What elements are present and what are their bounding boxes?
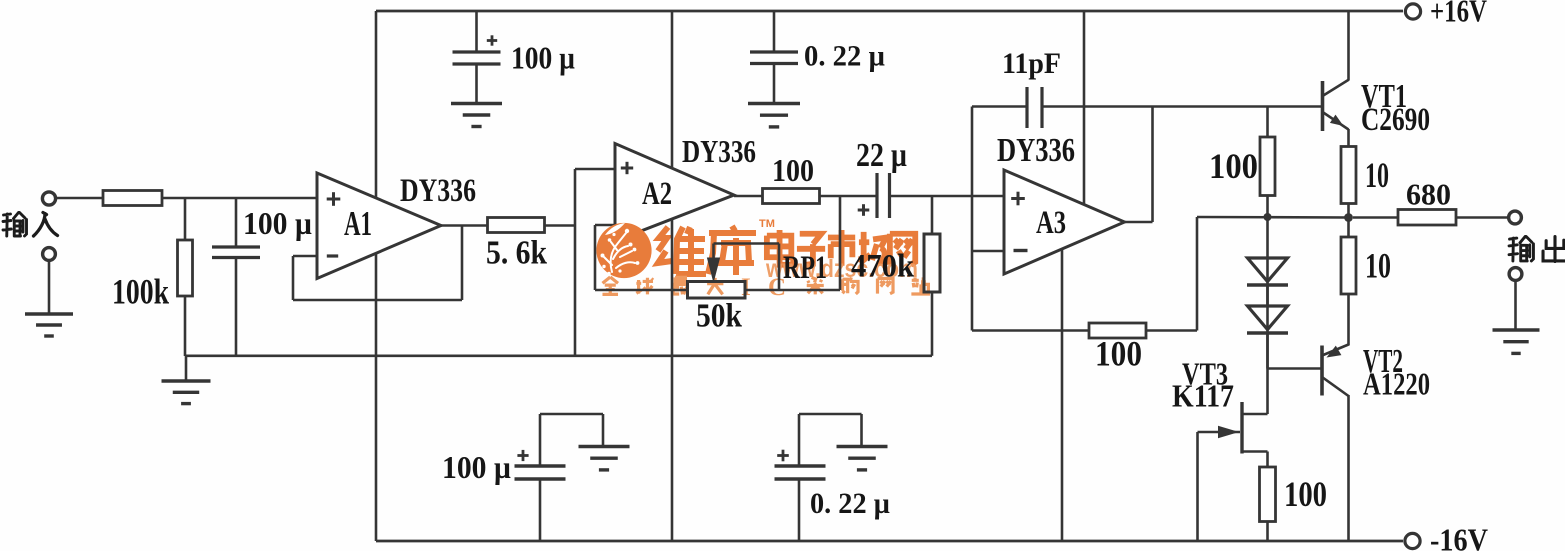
wire A1 V- supply to bottom rail	[375, 254, 378, 541]
wire C1 to ground bus	[235, 258, 238, 357]
svg-text:C2690: C2690	[1361, 102, 1430, 138]
svg-text:100k: 100k	[112, 272, 169, 312]
svg-text:A3: A3	[1036, 205, 1066, 241]
ground C4	[579, 445, 630, 448]
svg-text:100: 100	[1095, 334, 1142, 374]
wire -16V bottom supply rail	[376, 540, 1403, 543]
capacitor C5 0.22u plate1	[775, 464, 826, 467]
wire A2 feedback leg	[839, 196, 842, 290]
wire +16V top supply rail	[376, 10, 1403, 13]
capacitor C5 0.22u plate2	[775, 477, 826, 480]
watermark big characters	[658, 227, 706, 274]
wire A1 output	[441, 224, 488, 227]
wire ground bus	[186, 354, 932, 357]
VT2 emitter diagonal	[1322, 345, 1349, 356]
wire A3 output	[1125, 221, 1153, 224]
svg-text:A2: A2	[642, 176, 672, 212]
svg-text:100 µ: 100 µ	[511, 40, 575, 76]
wire A2 inv down	[594, 225, 597, 290]
op-amp A1	[317, 173, 441, 279]
svg-text:100 µ: 100 µ	[243, 205, 312, 241]
VT3 gate arrow	[1218, 426, 1239, 438]
wire node down to VT3 drain	[1266, 369, 1269, 415]
junction dot output node	[1344, 213, 1353, 222]
wire RP1 wiper link top	[714, 242, 780, 245]
wire C4 link right	[540, 413, 603, 416]
wire base line 11pF to VT1	[1042, 105, 1321, 108]
VT3 gate lead	[1198, 431, 1241, 434]
transistor VT1 base bar	[1321, 81, 1325, 131]
wire 100 to C22u	[820, 195, 878, 198]
wire 100 to bottom rail	[1266, 522, 1269, 542]
wire 10 lower to VT2 emitter	[1347, 294, 1350, 346]
wire C3 to ground	[773, 64, 776, 104]
VT1 emitter arrow	[1330, 115, 1344, 126]
VT1 emitter diagonal	[1323, 112, 1349, 130]
wire 470k bottom leg	[931, 292, 934, 356]
ground input port	[25, 312, 73, 315]
svg-text:A1: A1	[344, 204, 372, 243]
svg-text:100: 100	[1284, 474, 1327, 514]
svg-text:5. 6k: 5. 6k	[486, 235, 547, 272]
A3 minus marker	[1014, 249, 1028, 252]
wire C5 link right	[799, 413, 862, 416]
resistor 100k input bias	[178, 240, 193, 296]
resistor 680	[1398, 210, 1456, 226]
wire VT3 drain lead	[1242, 413, 1268, 416]
wire C4 ground drop	[602, 414, 605, 447]
terminal +16V	[1405, 4, 1420, 19]
wire VT1 emitter down	[1347, 129, 1350, 147]
label input (shu-ru)	[3, 213, 27, 237]
wire VT3 source down	[1266, 452, 1269, 468]
wire VT1 collector to rail	[1347, 11, 1350, 80]
resistor 100 A3 feedback	[1089, 323, 1146, 338]
VT1 collector diagonal	[1323, 80, 1350, 97]
diode D2	[1248, 306, 1288, 330]
junction dot diode node	[1264, 213, 1272, 221]
svg-text:DY336: DY336	[682, 133, 756, 169]
op-amp A3	[1004, 170, 1125, 274]
resistor 10 upper	[1341, 147, 1356, 204]
ground signal ground	[162, 379, 211, 382]
resistor R-in series input	[103, 191, 162, 206]
label output (shu-chu)	[1509, 237, 1533, 261]
capacitor C3 0.22u plate1	[750, 50, 798, 53]
wire node to 680	[1353, 216, 1398, 219]
wire A3 inverting stub	[972, 250, 1004, 253]
svg-text:100: 100	[772, 152, 814, 188]
svg-text:10: 10	[1365, 155, 1389, 195]
wire ground stub under 100k	[185, 356, 188, 381]
capacitor C3 0.22u plate2	[750, 62, 798, 65]
capacitor C2 100u plate2	[453, 62, 501, 65]
resistor 100 bias	[1260, 137, 1275, 196]
wire node to D1 (backbone through diodes)	[1266, 217, 1269, 369]
resistor 100 A2 output	[763, 189, 820, 204]
capacitor 22u plate2	[888, 173, 891, 218]
wire A3 output riser	[1151, 107, 1154, 223]
terminal output	[1509, 211, 1522, 224]
wire input node down to C1	[235, 198, 238, 247]
wire node to VT2 base	[1268, 367, 1323, 370]
svg-text:470k: 470k	[851, 249, 915, 285]
wire C5 ground drop	[860, 414, 863, 447]
VT2 emitter arrow	[1327, 346, 1342, 358]
wire C4 up	[539, 414, 542, 466]
wire A3 V- to bottom rail	[1061, 250, 1064, 542]
wire output ground down	[1514, 281, 1517, 331]
capacitor 11pF plate2	[1040, 87, 1043, 128]
wire C4 to bottom rail	[539, 479, 542, 541]
ground C5	[837, 445, 888, 448]
wire VT2 collector to bottom rail	[1347, 395, 1350, 541]
capacitor 22u plate1	[875, 173, 878, 218]
wire A2 inverting stub	[595, 224, 615, 227]
A1 plus marker	[327, 198, 341, 201]
svg-text:100 µ: 100 µ	[442, 449, 511, 485]
capacitor C4 100u plate2	[515, 477, 566, 480]
wire 100 bias to node	[1266, 196, 1269, 218]
wire A2 output	[734, 195, 763, 198]
svg-text:RP1: RP1	[783, 250, 827, 286]
VT3 source lead	[1242, 450, 1268, 453]
VT2 collector diagonal	[1322, 377, 1349, 396]
wire D2 down to VT2 base node	[1266, 333, 1269, 369]
wire A3 fb bottom left	[972, 329, 1089, 332]
svg-text:DY336: DY336	[997, 132, 1075, 169]
capacitor C2 100u plate1	[453, 50, 501, 53]
wire RP1 wiper link down	[778, 244, 781, 291]
C2 plus marker	[487, 39, 497, 42]
wire A2 input column	[574, 169, 577, 356]
resistor 100 VT3 source	[1260, 467, 1276, 522]
A1 minus marker	[327, 254, 338, 257]
svg-text:DY336: DY336	[400, 173, 476, 209]
wire A3 V+ from top rail	[1083, 11, 1086, 205]
wire A1 inverting stub	[293, 255, 317, 258]
svg-text:-16V: -16V	[1430, 522, 1488, 551]
RP1 wiper stem	[712, 244, 715, 263]
transistor VT3 channel bar	[1240, 402, 1243, 454]
capacitor C1 100u plate1	[212, 245, 260, 248]
svg-text:0. 22 µ: 0. 22 µ	[810, 487, 890, 520]
watermark logo disc	[596, 223, 651, 278]
diode D1	[1248, 258, 1288, 282]
C5 plus marker	[777, 454, 789, 457]
wire A2 V- supply to bottom rail	[671, 219, 674, 541]
svg-text:0. 22 µ: 0. 22 µ	[804, 40, 885, 73]
C4 plus marker	[517, 454, 528, 457]
ground C2	[451, 102, 502, 105]
ground output port	[1493, 328, 1540, 331]
wire A1 feedback left	[292, 256, 295, 300]
wire base line to 100R bias	[1266, 107, 1269, 138]
wire output node to 10 lower	[1347, 218, 1350, 238]
wire C5 to bottom rail	[798, 479, 801, 541]
wire A1 V+ supply from top rail	[375, 11, 378, 197]
wire A2 noninverting input	[575, 168, 615, 171]
A3 plus marker	[1011, 197, 1025, 200]
wire 680 to output terminal	[1456, 216, 1510, 219]
wire 10 to output node	[1347, 204, 1350, 218]
wire C2 to ground	[475, 64, 478, 104]
svg-text:680: 680	[1406, 177, 1451, 212]
wire A3 fb bottom right	[1146, 329, 1197, 332]
svg-text:A1220: A1220	[1363, 366, 1430, 402]
ground C3	[748, 102, 800, 105]
potentiometer RP1 50k body	[688, 282, 746, 299]
wire input to R1	[56, 197, 104, 200]
watermark slogan row	[602, 277, 618, 294]
resistor 5.6k	[488, 218, 545, 233]
terminal output ground	[1509, 268, 1522, 281]
wire A2 inv bottom left	[595, 289, 688, 292]
svg-text:K117: K117	[1172, 378, 1234, 414]
wire A1 feedback bottom	[293, 299, 462, 302]
wire base line left of 11pF	[972, 105, 1027, 108]
wire 100k to ground bus	[184, 296, 187, 356]
wire VT3 gate to bottom rail	[1196, 432, 1199, 541]
A2 plus marker	[621, 167, 633, 170]
capacitor C1 100u plate2	[212, 256, 260, 259]
wire RP1 right to feedback leg	[745, 289, 840, 292]
wire top rail to C3	[773, 11, 776, 52]
wire junction to 100k	[184, 198, 187, 240]
22u plus marker	[858, 209, 870, 212]
svg-text:50k: 50k	[696, 298, 742, 335]
svg-text:10: 10	[1365, 246, 1391, 286]
wire A3 fb riser	[1196, 217, 1199, 331]
transistor VT2 base bar	[1320, 346, 1324, 396]
RP1 wiper arrow	[708, 258, 720, 281]
wire A1 feedback right to output	[461, 226, 464, 301]
terminal input	[42, 192, 55, 205]
capacitor 11pF plate1	[1025, 87, 1028, 128]
svg-text:100: 100	[1209, 146, 1258, 186]
wire top rail to C2	[475, 11, 478, 52]
wire input ground terminal down	[48, 261, 51, 315]
wire A2 V+ supply from top rail	[671, 11, 674, 168]
wire node line to output node	[1197, 216, 1349, 219]
terminal -16V	[1405, 533, 1420, 548]
wire 5.6k to A2 node	[545, 224, 576, 227]
resistor 10 lower	[1341, 237, 1356, 294]
svg-text:11pF: 11pF	[1002, 47, 1061, 80]
svg-text:22 µ: 22 µ	[856, 137, 907, 174]
terminal input ground	[43, 248, 56, 261]
wire A3 feedback column	[971, 107, 974, 331]
wire C5 up	[798, 414, 801, 466]
capacitor C4 100u plate1	[515, 464, 566, 467]
wire D1 to D2	[1266, 285, 1269, 306]
wire 470k top leg	[931, 196, 934, 234]
wire R1 to A1 noninverting input	[162, 197, 317, 200]
resistor 470k	[924, 234, 940, 292]
op-amp A2	[615, 144, 734, 242]
svg-text:TM: TM	[759, 218, 775, 230]
svg-text:+16V: +16V	[1430, 0, 1487, 29]
wire C22u to A3 input	[890, 195, 1005, 198]
